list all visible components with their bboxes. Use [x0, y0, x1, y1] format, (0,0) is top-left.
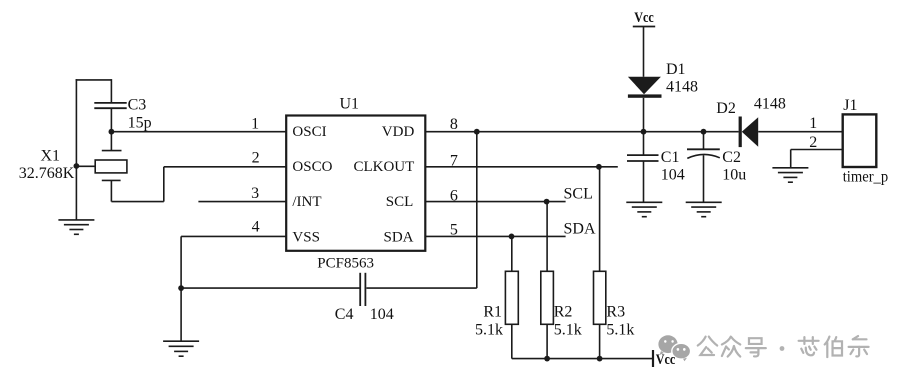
svg-text:5.1k: 5.1k [554, 321, 582, 338]
node VDD riser dot [474, 129, 480, 135]
char 乐 [849, 336, 869, 356]
wire VSS rail left [181, 287, 360, 289]
power Vcc bottom terminal [653, 350, 676, 368]
wire R2 riser [546, 202, 548, 272]
wire bottom Vcc rail [512, 358, 653, 360]
node R2 bottom dot [544, 356, 550, 362]
svg-text:OSCI: OSCI [292, 124, 326, 140]
node R1 tap dot [509, 234, 515, 240]
svg-text:X1: X1 [41, 148, 61, 165]
separator dot [780, 346, 785, 351]
node VSS junction dot [178, 285, 184, 291]
svg-text:PCF8563: PCF8563 [317, 256, 374, 272]
char 号 [746, 338, 766, 356]
svg-text:104: 104 [661, 166, 685, 183]
wire CLKOUT (pin 7) [425, 166, 618, 168]
svg-text:SCL: SCL [386, 194, 414, 210]
svg-text:VSS: VSS [292, 230, 320, 246]
wire riser to VDD node [476, 132, 478, 288]
wire R2 lower lead [546, 324, 548, 358]
wire VSS rail right [366, 287, 476, 289]
ground VSS [163, 288, 199, 356]
svg-text:/INT: /INT [292, 194, 321, 210]
ground C1 [626, 202, 662, 216]
svg-text:SCL: SCL [564, 186, 593, 203]
resistor R1 [505, 271, 518, 324]
svg-text:1: 1 [251, 115, 259, 132]
svg-text:4148: 4148 [666, 79, 698, 96]
svg-text:R2: R2 [554, 303, 573, 320]
svg-text:104: 104 [370, 306, 394, 323]
node OSCI junction dot [109, 129, 115, 135]
diode D1 [628, 77, 662, 132]
node R2 tap dot [544, 199, 550, 205]
svg-text:Vcc: Vcc [656, 352, 676, 368]
wire crystal top lead [110, 132, 112, 151]
wire R1 lower lead [511, 324, 513, 358]
resistor R2 [541, 271, 554, 324]
svg-text:Vcc: Vcc [634, 10, 654, 26]
svg-text:J1: J1 [843, 97, 857, 114]
svg-text:5.1k: 5.1k [475, 321, 503, 338]
svg-text:CLKOUT: CLKOUT [353, 159, 414, 175]
wire crystal case lead [76, 165, 95, 167]
wire VSS (pin 4) [181, 235, 286, 237]
wire J1 pin 2 [791, 149, 843, 151]
node C2 dot [701, 129, 707, 135]
svg-text:D1: D1 [666, 61, 686, 78]
svg-text:D2: D2 [716, 100, 736, 117]
char 伯 [825, 337, 842, 357]
wire R3 riser [599, 167, 601, 271]
char 公 [698, 337, 717, 355]
wire R1 riser [511, 236, 513, 271]
crystal X1 top plate [102, 150, 122, 152]
svg-text:15p: 15p [128, 114, 152, 131]
wire D2 to J1 [758, 131, 843, 133]
wire C3 top lead [110, 79, 112, 102]
svg-text:8: 8 [450, 116, 458, 133]
wire J1 pin2 drop [790, 150, 792, 168]
node D1/C1 dot [641, 129, 647, 135]
capacitor C4 [360, 273, 365, 306]
svg-text:OSCO: OSCO [292, 159, 332, 175]
svg-text:VDD: VDD [382, 124, 415, 140]
capacitor C3 [94, 103, 126, 108]
svg-text:3: 3 [251, 185, 259, 202]
wire R3 lower lead [599, 324, 601, 358]
svg-text:5.1k: 5.1k [606, 321, 634, 338]
wire OSCO (pin 2) [164, 166, 286, 168]
watermark text 公众号·芯伯乐 [698, 336, 869, 357]
svg-text:SDA: SDA [564, 221, 596, 238]
wire C3 bottom lead [110, 108, 112, 132]
power Vcc top [633, 10, 655, 77]
svg-text:32.768K: 32.768K [19, 165, 75, 182]
resistor R3 [594, 271, 606, 324]
node R3 tap dot [596, 164, 602, 170]
char 众 [722, 337, 740, 357]
capacitor C1 [627, 132, 659, 203]
svg-text:C4: C4 [335, 306, 354, 323]
svg-text:U1: U1 [340, 95, 360, 112]
svg-text:C3: C3 [128, 97, 147, 114]
diode D2 [739, 117, 759, 148]
connector J1 [843, 114, 877, 167]
char 芯 [799, 337, 819, 355]
IC U1 PCF8563 body [286, 116, 425, 251]
wire left vertical to ground [75, 79, 77, 220]
wire to OSCO horizontal [111, 201, 163, 203]
svg-text:SDA: SDA [383, 230, 413, 246]
svg-text:C1: C1 [661, 149, 680, 166]
ground C2 [686, 202, 722, 216]
svg-text:4: 4 [252, 219, 260, 236]
wire VSS drop [180, 236, 182, 288]
svg-text:4148: 4148 [754, 95, 786, 112]
svg-text:2: 2 [809, 134, 817, 151]
svg-text:2: 2 [252, 149, 260, 166]
wire loop top (C3 feedback) [76, 79, 112, 81]
crystal X1 bottom plate [102, 179, 121, 181]
wire VDD rail (pin 8) [425, 131, 738, 133]
wire SDA (pin 5) [425, 235, 565, 237]
wire OSCO riser [163, 167, 165, 202]
watermark wechat icon [658, 335, 690, 361]
node X1 case junction dot [74, 163, 80, 169]
ground J1 [772, 168, 808, 182]
wire crystal bottom lead [110, 180, 112, 201]
wire /INT (pin 3) [198, 201, 286, 203]
capacitor C2 (polarized) [687, 132, 720, 203]
svg-text:R3: R3 [606, 303, 625, 320]
wire SCL (pin 6) [425, 201, 565, 203]
svg-text:timer_p: timer_p [843, 168, 889, 185]
svg-text:R1: R1 [483, 303, 502, 320]
wire OSCI (pin 1) [111, 131, 286, 133]
svg-text:1: 1 [809, 115, 817, 132]
crystal X1 body [95, 160, 127, 173]
svg-text:10u: 10u [722, 166, 746, 183]
svg-text:C2: C2 [722, 149, 741, 166]
node R3 bottom dot [597, 356, 603, 362]
ground X1 [58, 220, 94, 234]
